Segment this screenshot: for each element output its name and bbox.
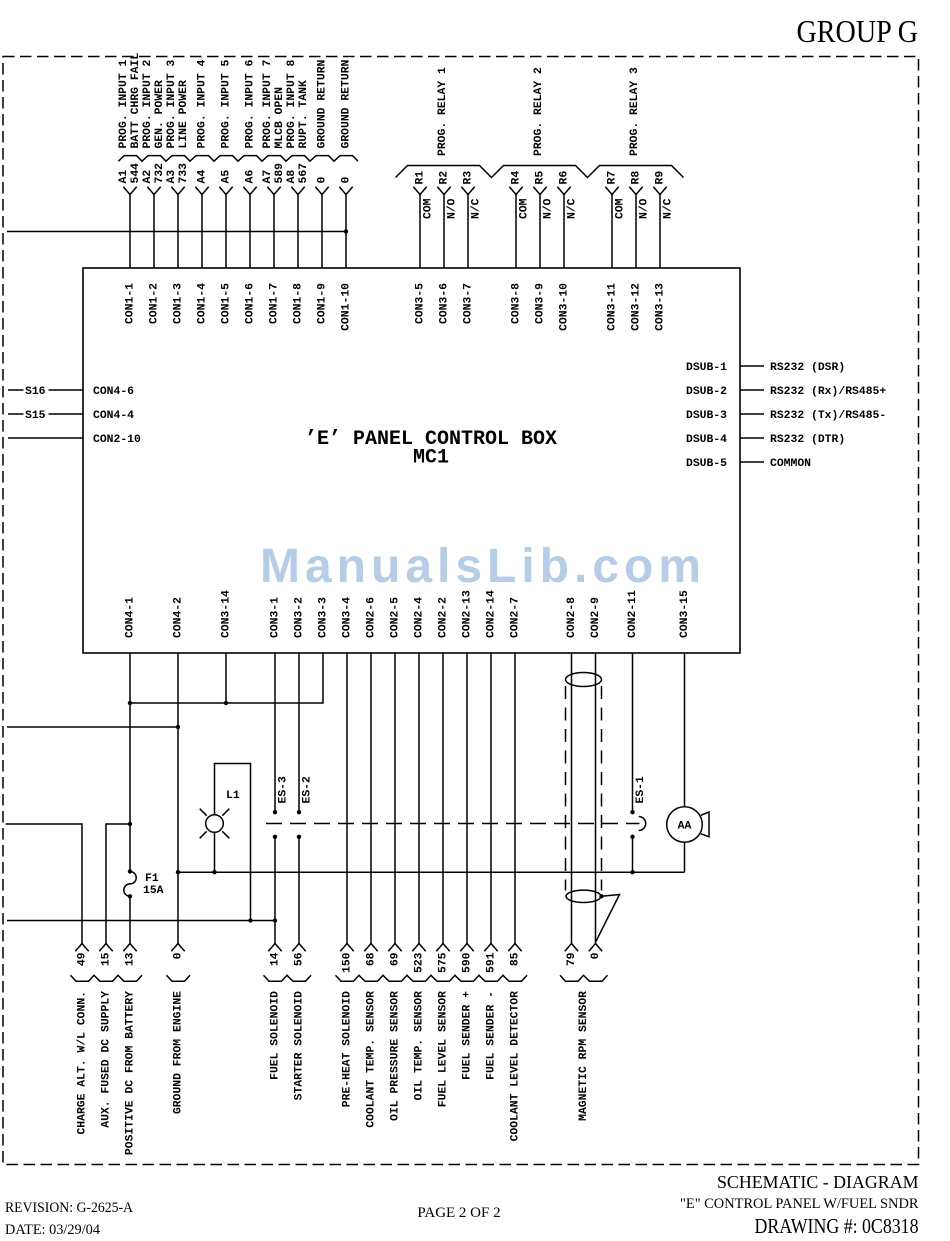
svg-text:CON3-4: CON3-4 — [342, 597, 354, 638]
svg-text:A8: A8 — [286, 170, 298, 184]
switch ES-2 top contact — [297, 810, 301, 814]
wire CON2-9 to terminal 0 — [595, 653, 597, 944]
svg-text:CON2-2: CON2-2 — [438, 597, 450, 638]
svg-text:CON3-9: CON3-9 — [535, 283, 547, 324]
wire horn AA to ground rail — [684, 842, 686, 872]
svg-text:CON4-6: CON4-6 — [93, 386, 134, 398]
terminal group brace — [336, 975, 528, 981]
junction CON4-2 ground — [176, 725, 180, 729]
shield right side (dashed) — [601, 686, 603, 891]
wire fuse F1 to terminal 13 — [129, 896, 131, 943]
svg-text:CON2-9: CON2-9 — [590, 597, 602, 638]
svg-text:MLCB OPEN: MLCB OPEN — [274, 87, 286, 149]
wire to CON2-10 — [8, 437, 83, 439]
svg-text:MC1: MC1 — [413, 447, 449, 470]
svg-text:DSUB-2: DSUB-2 — [686, 386, 727, 398]
junction at CON1-10 wire — [344, 229, 348, 233]
svg-text:GROUND RETURN: GROUND RETURN — [341, 59, 353, 148]
svg-text:CON1-6: CON1-6 — [245, 283, 257, 324]
svg-text:CON1-8: CON1-8 — [293, 283, 305, 324]
svg-text:CON3-6: CON3-6 — [439, 283, 451, 324]
svg-text:CON2-10: CON2-10 — [93, 434, 141, 446]
signal labels PROG. INPUT 1 / BATT CHRG FAIL — [118, 53, 142, 149]
svg-text:DSUB-5: DSUB-5 — [686, 458, 727, 470]
fuse F1 15A — [124, 872, 136, 897]
junction lamp frame / ground spur — [248, 918, 252, 922]
svg-text:RS232 (DSR): RS232 (DSR) — [770, 362, 845, 374]
svg-text:GROUND RETURN: GROUND RETURN — [317, 59, 329, 148]
svg-text:PROG. INPUT 5: PROG. INPUT 5 — [221, 59, 233, 148]
svg-text:85: 85 — [510, 952, 522, 966]
wire left boundary to CON4-2 — [7, 726, 178, 728]
svg-text:68: 68 — [366, 952, 378, 966]
svg-text:R2: R2 — [439, 171, 451, 185]
svg-text:COMMON: COMMON — [770, 458, 811, 470]
svg-text:CON2-7: CON2-7 — [510, 597, 522, 638]
svg-text:RS232 (DTR): RS232 (DTR) — [770, 434, 845, 446]
svg-text:PROG. INPUT 8: PROG. INPUT 8 — [286, 59, 298, 148]
wire CON2-5 to terminal 69 — [394, 653, 396, 944]
svg-text:POSITIVE DC FROM BATTERY: POSITIVE DC FROM BATTERY — [125, 991, 137, 1155]
svg-text:15A: 15A — [143, 885, 164, 897]
terminal group brace — [167, 975, 191, 981]
svg-text:S15: S15 — [25, 410, 46, 422]
junction CON4-1 / CON3-3 net — [128, 701, 132, 705]
svg-text:CON2-8: CON2-8 — [566, 597, 578, 638]
signal labels PROG. INPUT 3 / LINE POWER — [166, 59, 190, 148]
wire 0 to pin CON1-10 — [339, 187, 352, 268]
horn AA body — [667, 807, 703, 843]
svg-text:CON3-8: CON3-8 — [511, 283, 523, 324]
svg-text:CON2-5: CON2-5 — [390, 597, 402, 638]
svg-text:R8: R8 — [631, 171, 643, 185]
svg-text:544: 544 — [130, 163, 142, 184]
svg-text:N/O: N/O — [447, 198, 459, 219]
svg-text:A3: A3 — [166, 170, 178, 184]
signal labels PROG. INPUT 2 / GEN. POWER — [142, 59, 166, 148]
wire A6 to pin CON1-6 — [243, 187, 256, 268]
wire A4 to pin CON1-4 — [195, 187, 208, 268]
terminal group brace — [264, 975, 312, 981]
svg-text:FUEL SENDER +: FUEL SENDER + — [462, 991, 474, 1080]
svg-text:DRAWING #: 0C8318: DRAWING #: 0C8318 — [755, 1214, 919, 1238]
svg-text:S16: S16 — [25, 386, 46, 398]
svg-text:15: 15 — [101, 952, 113, 966]
svg-text:A1: A1 — [118, 170, 130, 184]
svg-text:FUEL LEVEL SENSOR: FUEL LEVEL SENSOR — [438, 991, 450, 1107]
svg-text:DATE: 03/29/04: DATE: 03/29/04 — [5, 1222, 100, 1238]
wire R2 to pin CON3-6 — [437, 187, 450, 268]
svg-text:CON1-9: CON1-9 — [317, 283, 329, 324]
lamp L1 bulb — [206, 815, 224, 833]
wire R8 to pin CON3-12 — [629, 187, 642, 268]
wire CON3-3 to CON4-1 and CON3-14 — [130, 653, 323, 703]
svg-text:CON4-4: CON4-4 — [93, 410, 134, 422]
junction ES-1 ground — [630, 870, 634, 874]
svg-text:732: 732 — [154, 163, 166, 184]
svg-text:N/O: N/O — [543, 198, 555, 219]
svg-text:CON1-5: CON1-5 — [221, 283, 233, 324]
terminal 69 connector — [388, 944, 401, 952]
wire stub DSUB-3 — [740, 413, 764, 415]
wire R9 to pin CON3-13 — [653, 187, 666, 268]
svg-text:ES-2: ES-2 — [302, 776, 314, 804]
terminal 49 connector — [75, 944, 88, 952]
terminal 68 connector — [364, 944, 377, 952]
terminal 0 connector — [589, 944, 602, 952]
junction ground rail at CON4-2 — [176, 870, 180, 874]
svg-text:N/C: N/C — [471, 198, 483, 219]
svg-text:CON1-1: CON1-1 — [125, 283, 137, 324]
svg-text:CON3-3: CON3-3 — [318, 597, 330, 638]
svg-text:OIL PRESSURE SENSOR: OIL PRESSURE SENSOR — [390, 991, 402, 1121]
terminal 15 connector — [99, 944, 112, 952]
svg-text:COM: COM — [423, 198, 435, 219]
svg-text:CON1-2: CON1-2 — [149, 283, 161, 324]
svg-text:FUEL SENDER -: FUEL SENDER - — [486, 991, 498, 1080]
wire R5 to pin CON3-9 — [533, 187, 546, 268]
svg-text:A4: A4 — [197, 170, 209, 184]
svg-text:CON3-13: CON3-13 — [655, 283, 667, 331]
shield top ellipse — [566, 673, 602, 687]
net labels A1 544 — [118, 163, 142, 184]
svg-text:PROG. RELAY 2: PROG. RELAY 2 — [533, 67, 545, 156]
svg-text:DSUB-1: DSUB-1 — [686, 362, 727, 374]
wire CON2-11 to switch ES-1 — [632, 653, 634, 812]
svg-text:AA: AA — [678, 821, 692, 833]
ground spur wire — [7, 920, 275, 922]
wire A7/589 to pin CON1-7 — [267, 187, 280, 268]
wire ES-2 to terminal 56 — [298, 837, 300, 944]
wire CON3-15 to horn AA — [684, 653, 686, 807]
wire CON2-4 to terminal 523 — [418, 653, 420, 944]
svg-text:0: 0 — [590, 952, 602, 959]
net labels A2 732 — [142, 163, 166, 184]
svg-text:STARTER SOLENOID: STARTER SOLENOID — [294, 991, 306, 1101]
wire A2/732 to pin CON1-2 — [147, 187, 160, 268]
control box MC1 outline — [83, 268, 740, 653]
svg-text:590: 590 — [462, 952, 474, 973]
signal labels PROG. INPUT 8 / RUPT. TANK — [286, 59, 310, 148]
svg-text:REVISION: G-2625-A: REVISION: G-2625-A — [5, 1200, 133, 1216]
lamp L1 frame — [215, 764, 251, 921]
switch ES-1 top contact — [630, 810, 634, 814]
wire CON4-2 to terminal 0 ground — [177, 653, 179, 944]
shield bottom ellipse — [566, 890, 601, 902]
svg-text:PRE-HEAT SOLENOID: PRE-HEAT SOLENOID — [342, 991, 354, 1107]
terminal 56 connector — [292, 944, 305, 952]
svg-text:CON4-1: CON4-1 — [125, 597, 137, 638]
shield drain wire to terminal 0 — [596, 895, 620, 942]
wire CON3-4 to terminal 150 — [346, 653, 348, 944]
svg-text:CON2-6: CON2-6 — [366, 597, 378, 638]
svg-text:591: 591 — [486, 952, 498, 973]
svg-text:733: 733 — [178, 163, 190, 184]
svg-text:ES-3: ES-3 — [278, 776, 290, 804]
wire CON3-1 to switch ES-3 — [274, 653, 276, 812]
net labels A3 733 — [166, 163, 190, 184]
wire stub DSUB-1 — [740, 365, 764, 367]
terminal 79 connector — [565, 944, 578, 952]
svg-text:CON1-4: CON1-4 — [197, 283, 209, 324]
svg-text:CON3-15: CON3-15 — [679, 590, 691, 638]
relay group bracket — [396, 166, 684, 178]
svg-text:R1: R1 — [415, 171, 427, 185]
svg-text:OIL TEMP. SENSOR: OIL TEMP. SENSOR — [414, 991, 426, 1101]
wire S15 to CON4-4 — [8, 413, 83, 415]
wire R4 to pin CON3-8 — [509, 187, 522, 268]
shield drain junction — [599, 894, 603, 898]
svg-text:69: 69 — [390, 952, 402, 966]
terminal 575 connector — [436, 944, 449, 952]
terminal 590 connector — [460, 944, 473, 952]
shield left side (dashed) — [565, 686, 567, 891]
svg-text:14: 14 — [270, 952, 282, 966]
svg-text:BATT CHRG FAIL: BATT CHRG FAIL — [130, 53, 142, 149]
svg-text:N/C: N/C — [663, 198, 675, 219]
switch ES-2 bottom contact — [297, 835, 301, 839]
svg-text:79: 79 — [566, 952, 578, 966]
svg-text:CON1-3: CON1-3 — [173, 283, 185, 324]
wire S16 to CON4-6 — [8, 389, 83, 391]
svg-text:0: 0 — [341, 177, 353, 184]
junction lamp L1 ground — [212, 870, 216, 874]
svg-text:ManualsLib.com: ManualsLib.com — [260, 540, 706, 593]
terminal 13 connector — [123, 944, 136, 952]
svg-text:GROUND FROM ENGINE: GROUND FROM ENGINE — [173, 991, 185, 1114]
terminal 0 connector — [171, 944, 184, 952]
svg-text:AUX. FUSED DC SUPPLY: AUX. FUSED DC SUPPLY — [101, 991, 113, 1128]
wire R3 to pin CON3-7 — [461, 187, 474, 268]
svg-text:A7: A7 — [262, 170, 274, 184]
junction terminal-14 wire / ground spur — [273, 918, 277, 922]
wire ES-1 to ground rail — [632, 837, 634, 872]
signal labels PROG. INPUT 7 / MLCB OPEN — [262, 59, 286, 148]
junction CON4-1 / aux supply tap — [128, 822, 132, 826]
wire CON2-13 to terminal 590 — [466, 653, 468, 944]
svg-text:N/C: N/C — [567, 198, 579, 219]
svg-text:CON3-7: CON3-7 — [463, 283, 475, 324]
ground rail wire — [178, 871, 685, 873]
terminal 85 connector — [508, 944, 521, 952]
wire CON2-7 to terminal 85 — [514, 653, 516, 944]
wire 0 to pin CON1-9 — [315, 187, 328, 268]
switch linkage (dashed) — [266, 823, 640, 825]
svg-text:COM: COM — [519, 198, 531, 219]
wire A1/544 to pin CON1-1 — [123, 187, 136, 268]
svg-text:COOLANT TEMP. SENSOR: COOLANT TEMP. SENSOR — [366, 991, 378, 1128]
svg-text:PROG. INPUT 7: PROG. INPUT 7 — [262, 59, 274, 148]
junction CON3-14 — [224, 701, 228, 705]
net labels A8 567 — [286, 163, 310, 184]
terminal 14 connector — [268, 944, 281, 952]
svg-text:CON2-4: CON2-4 — [414, 597, 426, 638]
svg-text:CON3-10: CON3-10 — [559, 283, 571, 331]
wire CON3-14 stub — [225, 653, 227, 703]
svg-text:CON3-5: CON3-5 — [415, 283, 427, 324]
svg-text:PROG. INPUT 3: PROG. INPUT 3 — [166, 59, 178, 148]
svg-text:N/O: N/O — [639, 198, 651, 219]
svg-text:COOLANT LEVEL DETECTOR: COOLANT LEVEL DETECTOR — [510, 991, 522, 1142]
svg-text:"E" CONTROL PANEL W/FUEL SNDR: "E" CONTROL PANEL W/FUEL SNDR — [680, 1196, 919, 1212]
svg-text:13: 13 — [125, 952, 137, 966]
fuse F1 bottom terminal — [128, 894, 132, 898]
wire stub DSUB-5 — [740, 461, 764, 463]
svg-text:A6: A6 — [245, 170, 257, 184]
svg-text:PROG. INPUT 1: PROG. INPUT 1 — [118, 59, 130, 148]
svg-text:56: 56 — [294, 952, 306, 966]
svg-text:R6: R6 — [559, 171, 571, 185]
switch ES-1 actuator hook — [639, 817, 646, 831]
svg-text:R4: R4 — [511, 171, 523, 185]
switch ES-3 top contact — [273, 810, 277, 814]
wire R6 to pin CON3-10 — [557, 187, 570, 268]
wire A5 to pin CON1-5 — [219, 187, 232, 268]
svg-text:R9: R9 — [655, 171, 667, 185]
svg-text:R5: R5 — [535, 171, 547, 185]
svg-text:CHARGE ALT. W/L CONN.: CHARGE ALT. W/L CONN. — [77, 991, 89, 1135]
svg-text:PROG. RELAY 3: PROG. RELAY 3 — [629, 67, 641, 156]
svg-text:CON2-11: CON2-11 — [627, 590, 639, 638]
svg-text:CON2-13: CON2-13 — [462, 590, 474, 638]
terminal group brace — [71, 975, 143, 981]
svg-text:523: 523 — [414, 952, 426, 973]
lamp L1 rays — [200, 809, 230, 839]
svg-text:GROUP G: GROUP G — [797, 13, 919, 49]
svg-text:CON3-14: CON3-14 — [221, 590, 233, 638]
wire stub DSUB-4 — [740, 437, 764, 439]
wire CON2-14 to terminal 591 — [490, 653, 492, 944]
svg-text:CON3-12: CON3-12 — [631, 283, 643, 331]
wire CON3-2 to switch ES-2 — [298, 653, 300, 812]
wire ES-3 to terminal 14 — [274, 837, 276, 944]
svg-text:R3: R3 — [463, 171, 475, 185]
svg-text:DSUB-3: DSUB-3 — [686, 410, 727, 422]
svg-text:LINE POWER: LINE POWER — [178, 80, 190, 149]
svg-text:R7: R7 — [607, 171, 619, 185]
svg-text:FUEL SOLENOID: FUEL SOLENOID — [270, 991, 282, 1080]
switch ES-3 bottom contact — [273, 835, 277, 839]
svg-text:CON4-2: CON4-2 — [173, 597, 185, 638]
wire charge alt terminal 49 — [6, 824, 82, 944]
wire aux supply terminal 15 — [106, 824, 130, 944]
svg-text:PAGE 2 OF 2: PAGE 2 OF 2 — [417, 1205, 500, 1221]
svg-text:F1: F1 — [145, 873, 159, 885]
svg-text:575: 575 — [438, 952, 450, 973]
svg-text:CON3-1: CON3-1 — [270, 597, 282, 638]
svg-text:A5: A5 — [221, 170, 233, 184]
svg-text:0: 0 — [173, 952, 185, 959]
svg-text:DSUB-4: DSUB-4 — [686, 434, 727, 446]
svg-text:589: 589 — [274, 163, 286, 184]
svg-text:49: 49 — [77, 952, 89, 966]
wire CON2-8 to terminal 79 — [571, 653, 573, 944]
horn AA bell — [701, 812, 709, 837]
svg-text:PROG. INPUT 6: PROG. INPUT 6 — [245, 59, 257, 148]
svg-text:RS232 (Tx)/RS485-: RS232 (Tx)/RS485- — [770, 410, 886, 422]
svg-text:ES-1: ES-1 — [635, 776, 647, 804]
wire A8/567 to pin CON1-8 — [291, 187, 304, 268]
wire CON2-2 to terminal 575 — [442, 653, 444, 944]
svg-text:CON2-14: CON2-14 — [486, 590, 498, 638]
svg-text:MAGNETIC RPM SENSOR: MAGNETIC RPM SENSOR — [578, 991, 590, 1121]
terminal group brace — [560, 975, 608, 981]
fuse F1 top terminal — [128, 869, 132, 873]
svg-text:CON3-2: CON3-2 — [294, 597, 306, 638]
wire lamp L1 to ground rail — [214, 832, 216, 872]
svg-text:RUPT. TANK: RUPT. TANK — [298, 80, 310, 149]
svg-text:0: 0 — [317, 177, 329, 184]
svg-text:CON1-10: CON1-10 — [341, 283, 353, 331]
wire CON2-6 to terminal 68 — [370, 653, 372, 944]
svg-text:CON3-11: CON3-11 — [607, 283, 619, 331]
svg-text:PROG. INPUT 4: PROG. INPUT 4 — [197, 59, 209, 148]
terminal 150 connector — [340, 944, 353, 952]
wire R1 to pin CON3-5 — [413, 187, 426, 268]
bundle brace over input wires — [119, 156, 359, 162]
svg-text:SCHEMATIC - DIAGRAM: SCHEMATIC - DIAGRAM — [717, 1172, 919, 1192]
svg-text:PROG. RELAY 1: PROG. RELAY 1 — [437, 67, 449, 156]
wire A3/733 to pin CON1-3 — [171, 187, 184, 268]
svg-text:150: 150 — [342, 952, 354, 973]
switch ES-1 bottom contact — [630, 835, 634, 839]
terminal 591 connector — [484, 944, 497, 952]
terminal 523 connector — [412, 944, 425, 952]
svg-text:GEN. POWER: GEN. POWER — [154, 80, 166, 149]
svg-text:RS232 (Rx)/RS485+: RS232 (Rx)/RS485+ — [770, 386, 886, 398]
wire ground return to CON1-10 — [7, 231, 346, 233]
svg-text:A2: A2 — [142, 170, 154, 184]
wire R7 to pin CON3-11 — [605, 187, 618, 268]
net labels A7 589 — [262, 163, 286, 184]
svg-text:L1: L1 — [226, 790, 240, 802]
wire stub DSUB-2 — [740, 389, 764, 391]
svg-text:567: 567 — [298, 163, 310, 184]
svg-text:COM: COM — [615, 198, 627, 219]
svg-text:PROG. INPUT 2: PROG. INPUT 2 — [142, 59, 154, 148]
wire CON4-1 down to fuse F1 — [129, 653, 131, 872]
svg-text:CON1-7: CON1-7 — [269, 283, 281, 324]
